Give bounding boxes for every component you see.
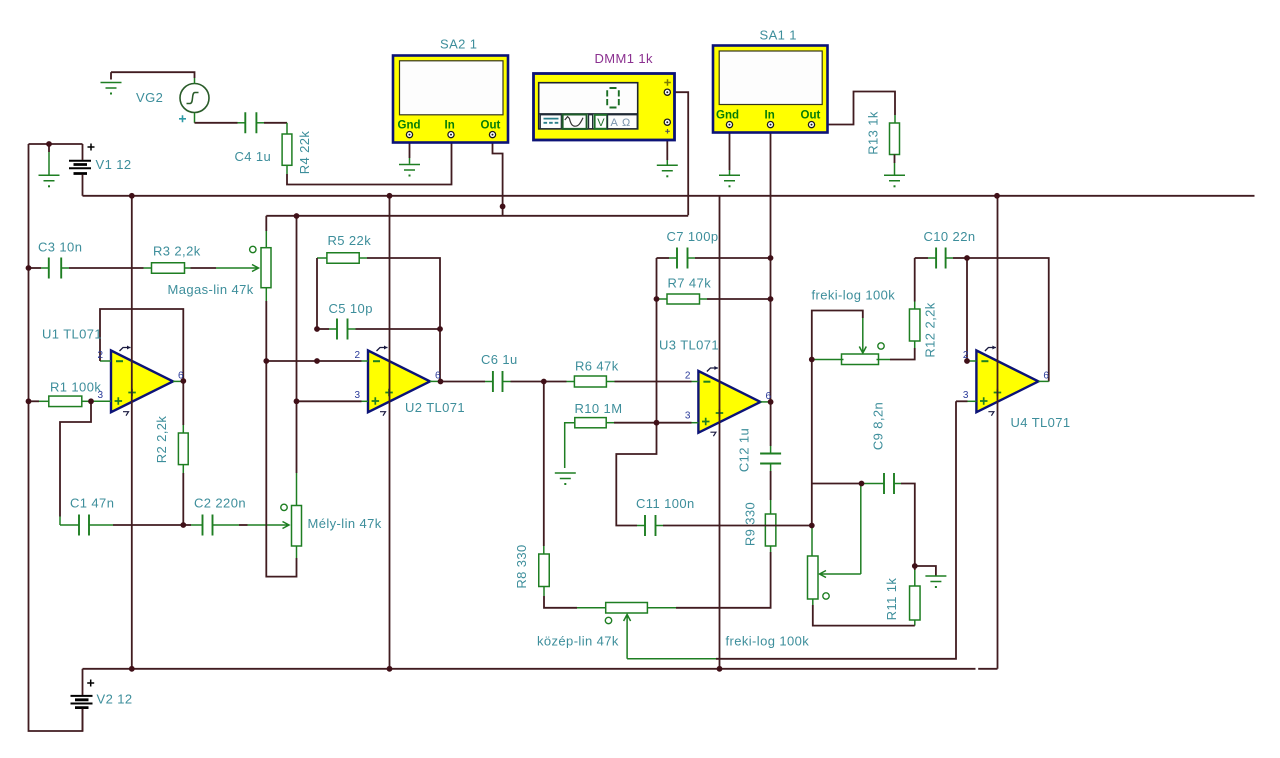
junction rail U3 supply — [717, 666, 723, 672]
wire C5 left lead a — [317, 328, 329, 330]
wire C2 right lead — [213, 524, 240, 526]
wire VG2 top lead — [194, 78, 196, 84]
ground at VG2 — [101, 83, 122, 89]
wire R2 bottom lead — [182, 465, 184, 474]
wire R10 right lead — [606, 422, 614, 424]
junction R7 left — [654, 296, 660, 302]
junction U4 pin2 — [964, 358, 970, 364]
junction bus1 U4 supply — [994, 193, 1000, 199]
capacitor C5 — [337, 319, 348, 340]
wire Magas-lin bottom lead — [265, 288, 267, 302]
voltage generator VG2 — [180, 84, 209, 113]
capacitor C9 — [884, 473, 894, 494]
resistor R13 — [890, 123, 900, 155]
junction C1 C2 R2 node — [180, 522, 186, 528]
wire C9 right lead — [894, 483, 901, 485]
svg-text:Mély-lin 47k: Mély-lin 47k — [308, 516, 382, 531]
capacitor C2 — [203, 515, 213, 536]
svg-text:R7 47k: R7 47k — [668, 276, 712, 291]
svg-text:R2 2,2k: R2 2,2k — [154, 416, 169, 464]
wire C7 right to SA1 In — [695, 257, 771, 259]
wire R1 node to U1 pin3 — [91, 400, 111, 402]
junction U2 pin3 Mely vertical — [294, 398, 300, 404]
SA1 In terminal — [767, 122, 773, 128]
node V1 ground junction — [46, 141, 52, 147]
wire C6 right lead — [503, 381, 511, 383]
svg-text:In: In — [765, 110, 775, 122]
wire C9 ground stem — [915, 566, 936, 576]
svg-text:közép-lin 47k: közép-lin 47k — [537, 634, 619, 649]
wire U4 pin2 stub — [967, 360, 976, 362]
wire R1 left to ground bus — [29, 400, 40, 402]
wire C7 right lead — [688, 257, 696, 259]
wire ground stem at V1 — [48, 144, 50, 152]
svg-text:2: 2 — [355, 350, 361, 361]
wire C5 right lead — [348, 328, 356, 330]
resistor R10 — [575, 418, 606, 428]
junction C7 right SA1 In — [768, 255, 774, 261]
resistor R12 — [909, 309, 920, 341]
svg-text:V1 12: V1 12 — [96, 157, 132, 172]
wire C7 left lead — [669, 257, 677, 259]
wire R8 top vertical — [543, 382, 545, 547]
wire top supply bus (node -V) — [83, 195, 1255, 197]
wire R5 left lead — [317, 257, 327, 259]
wire freki2 top lead — [811, 526, 813, 557]
wire freki1 node vertical — [811, 360, 813, 526]
wire kozep left lead — [577, 607, 606, 609]
wire R4 bottom lead — [286, 165, 288, 174]
svg-text:R5 22k: R5 22k — [328, 233, 372, 248]
wire SA1 In down to U3 output — [770, 129, 772, 402]
DMM1 plus mark — [664, 79, 671, 86]
wire C11 right lead — [656, 525, 664, 527]
svg-text:SA1 1: SA1 1 — [760, 28, 797, 43]
wire freki2 wiper vertical — [860, 484, 862, 575]
wire freki1 wiper loop — [812, 311, 863, 360]
wire pin3 node to U3 — [657, 422, 692, 424]
svg-text:freki-log 100k: freki-log 100k — [812, 288, 896, 303]
wire Mely bottom loop — [266, 361, 296, 577]
potentiometer freki-log 2 wiper terminal — [823, 593, 829, 599]
junction rail U2 supply — [387, 666, 393, 672]
wire U3 output lead — [761, 401, 771, 403]
op-amp U1 TL071 — [111, 346, 173, 416]
resistor R8 — [539, 554, 550, 587]
DMM1 A label — [607, 115, 637, 129]
wire V2 top lead — [82, 669, 84, 695]
wire C9 left lead — [862, 483, 885, 485]
wire Magas-lin top lead — [265, 231, 267, 248]
wire Mely bottom lead — [296, 546, 298, 558]
wire ground stem green at V1 — [48, 152, 50, 175]
svg-text:V: V — [597, 117, 605, 129]
op-amp U2 TL071 — [368, 346, 430, 416]
wire C3 left lead — [41, 267, 49, 269]
wire U4 pin3 a — [956, 400, 968, 402]
svg-text:2: 2 — [963, 350, 969, 361]
DMM1 minus mark — [665, 129, 670, 134]
wire R13 top lead — [894, 115, 896, 123]
SA1 Gnd terminal — [726, 122, 732, 128]
svg-text:C11 100n: C11 100n — [636, 496, 695, 511]
wire kozep right lead — [647, 607, 676, 609]
potentiometer Magas-lin wiper terminal — [250, 246, 256, 252]
wire freki1 wiper arrow — [859, 318, 866, 353]
instrument SA2 body — [393, 56, 508, 143]
junction C6 R6 R8 node — [541, 379, 547, 385]
junction U3 output node — [768, 399, 774, 405]
wire R6 left lead — [567, 381, 575, 383]
svg-text:Ω: Ω — [622, 117, 630, 129]
wire V1 top lead — [82, 144, 84, 160]
DMM1 V button — [595, 115, 608, 129]
resistor R1 — [49, 396, 82, 407]
wire R4 to SA2 In — [287, 138, 452, 185]
capacitor C4 — [245, 112, 256, 133]
wire Magas-lin bottom down — [265, 301, 267, 361]
svg-text:C2 220n: C2 220n — [194, 496, 246, 511]
wire C4 to R4 — [264, 122, 287, 124]
wire R6 to U3 pin2 — [615, 381, 692, 383]
wire R8 to kozep pot — [544, 596, 577, 608]
wire C7R7 left vertical — [656, 258, 658, 423]
svg-text:Gnd: Gnd — [398, 119, 421, 131]
potentiometer kozep-lin — [606, 603, 648, 614]
wire freki1 to R12 — [890, 348, 915, 360]
op-amp U4 TL071 — [976, 346, 1038, 416]
svg-text:R13 1k: R13 1k — [866, 111, 881, 155]
svg-text:6: 6 — [766, 391, 772, 402]
wire C1 to R2 node — [113, 524, 183, 526]
junction R7 right SA1 In — [768, 296, 774, 302]
wire C10 node to U4 output — [967, 258, 1049, 382]
wire bottom supply rail (node +V) — [83, 668, 976, 670]
capacitor C11 — [645, 515, 656, 536]
junction R1 left ground bus — [26, 398, 32, 404]
wire C6 to node — [511, 381, 544, 383]
svg-text:freki-log 100k: freki-log 100k — [726, 634, 810, 649]
wire C9 right down — [901, 484, 915, 567]
SA2 Out terminal — [489, 132, 495, 138]
wire SA2 Gnd stem — [409, 138, 411, 158]
wire R11 bottom lead — [914, 620, 916, 626]
DMM1 mode separator — [589, 115, 593, 129]
wire C1 left lead h — [60, 524, 79, 526]
svg-text:2: 2 — [685, 370, 691, 381]
wire kozep to R9 — [676, 552, 771, 608]
wire C3 right lead — [61, 267, 69, 269]
junction bus1 U2 supply — [387, 193, 393, 199]
svg-text:Out: Out — [801, 110, 821, 122]
wire R12 top lead — [914, 302, 916, 310]
V2 plus mark — [87, 680, 94, 687]
ground at R10 — [555, 473, 576, 479]
wire wiper lead long green — [627, 658, 716, 660]
wire node to R6 — [544, 381, 567, 383]
svg-text:R10 1M: R10 1M — [575, 401, 623, 416]
DMM1 plus terminal — [664, 89, 670, 95]
wire C12 to U3 output — [770, 402, 772, 446]
wire DMM minus stem green — [666, 160, 668, 165]
wire R2 node to C2 — [183, 524, 191, 526]
SA2 Gnd terminal — [406, 132, 412, 138]
wire VG2 output lead — [194, 113, 196, 123]
capacitor C10 — [936, 248, 946, 269]
wire R2 top lead — [182, 425, 184, 433]
ground at DMM1 — [657, 165, 678, 171]
junction C11 right node — [809, 523, 815, 529]
op-amp U3 TL071 — [698, 366, 760, 436]
wire R13 bottom lead — [894, 155, 896, 164]
SA2 In terminal — [448, 132, 454, 138]
svg-text:U3 TL071: U3 TL071 — [659, 338, 719, 353]
svg-text:6: 6 — [435, 370, 441, 381]
ground at V1 — [39, 175, 60, 181]
potentiometer Magas-lin — [261, 248, 271, 288]
wire U1 output lead — [173, 380, 183, 382]
wire C10 right to U4 pin2 node — [953, 257, 967, 259]
wire C3 to R3 — [69, 267, 144, 269]
wire R5 right to feedback — [367, 258, 440, 329]
wire R12 to C10 — [914, 258, 916, 302]
V1 plus mark — [88, 144, 95, 151]
instrument SA1 body — [713, 46, 828, 133]
wire Mely top down — [296, 401, 298, 473]
wire C3 left to ground bus — [29, 267, 42, 269]
junction SA2 out joint — [500, 204, 506, 210]
wire U2 pin2 stub — [362, 360, 369, 362]
potentiometer kozep-lin wiper terminal — [605, 617, 611, 623]
svg-text:3: 3 — [963, 390, 969, 401]
wire R1 left lead — [39, 400, 49, 402]
potentiometer freki-log 2 — [808, 556, 819, 599]
svg-text:Out: Out — [481, 119, 501, 131]
DMM1 minus terminal — [664, 119, 670, 125]
junction U3 pin3 node — [654, 420, 660, 426]
svg-text:U1 TL071: U1 TL071 — [42, 327, 102, 342]
wire R11 top lead a — [914, 566, 916, 570]
wire U2 pin2 line — [266, 360, 361, 362]
junction bus B Mely vertical — [294, 213, 300, 219]
ground at SA1 — [719, 175, 740, 181]
capacitor C1 — [79, 515, 89, 536]
DMM1 DC icon — [540, 115, 561, 129]
wire U4 pin3 stub — [968, 400, 977, 402]
wire Magas-lin top to bus B — [265, 216, 267, 231]
wire R7 right to SA1 In — [707, 298, 771, 300]
wire feedback to U2 output — [439, 329, 441, 382]
wire U1 pin2 stub — [100, 360, 111, 362]
instrument DMM1 body — [534, 74, 675, 141]
resistor R11 — [910, 586, 921, 620]
junction C10 right U4 pin2 — [964, 255, 970, 261]
wire Mely top lead — [296, 473, 298, 506]
wire U1 pin3 node down to C1 — [60, 401, 91, 516]
ground at SA2 — [399, 165, 420, 171]
wire R6 right lead — [607, 381, 615, 383]
resistor R7 — [667, 294, 700, 304]
svg-text:R6 47k: R6 47k — [575, 359, 619, 374]
VG2 plus mark — [179, 115, 186, 122]
svg-text:R11 1k: R11 1k — [884, 578, 899, 621]
wire C4 right lead — [256, 122, 264, 124]
wire U2 output lead — [430, 380, 441, 382]
wire Mely vertical to bus B — [296, 216, 298, 401]
svg-text:C10 22n: C10 22n — [924, 229, 976, 244]
svg-text:2: 2 — [98, 350, 104, 361]
potentiometer Mely-lin — [292, 506, 302, 547]
svg-text:C1 47n: C1 47n — [70, 496, 114, 511]
svg-text:C6 1u: C6 1u — [481, 352, 518, 367]
wire C12 bottom lead — [770, 464, 772, 472]
svg-text:C7 100p: C7 100p — [667, 229, 719, 244]
svg-text:R3 2,2k: R3 2,2k — [153, 244, 201, 259]
svg-text:3: 3 — [685, 411, 691, 422]
wire freki2 bottom lead — [812, 599, 814, 605]
svg-text:A: A — [611, 117, 619, 129]
wire SA2 Gnd stem green — [409, 158, 411, 164]
junction U2 output C6 — [438, 379, 444, 385]
svg-text:DMM1 1k: DMM1 1k — [595, 51, 654, 66]
wire C5 left lead — [329, 328, 337, 330]
wire R7 left a — [657, 298, 660, 300]
junction U2 pin2 Magas bottom — [263, 358, 269, 364]
wire U1 feedback loop — [100, 309, 183, 382]
svg-text:R9 330: R9 330 — [743, 502, 758, 546]
wire R5 left vertical — [316, 258, 318, 329]
wire R7 right lead — [700, 298, 708, 300]
resistor R3 — [152, 263, 185, 274]
wire V1 bottom lead to bus — [82, 175, 84, 196]
svg-text:C4 1u: C4 1u — [235, 149, 272, 164]
wire kozep wiper arrow — [624, 615, 631, 659]
wire VG2 to C4 — [195, 122, 238, 124]
wire C10 left a — [915, 257, 928, 259]
wire SA1 Out to R13 — [812, 92, 896, 125]
svg-text:C12 1u: C12 1u — [737, 428, 752, 472]
wire U1 supply vertical — [131, 196, 133, 669]
junction freki1 node — [809, 357, 815, 363]
svg-text:R1 100k: R1 100k — [50, 380, 101, 395]
wire C5 right to feedback — [356, 328, 441, 330]
capacitor C12 — [760, 454, 781, 464]
potentiometer Mely-lin wiper terminal — [281, 504, 287, 510]
junction R5 C5 left — [314, 358, 320, 364]
wire DMM plus to bus B — [671, 92, 689, 215]
wire SA1 Gnd stem — [729, 129, 731, 171]
svg-text:V2 12: V2 12 — [97, 692, 133, 707]
wire R4 top lead — [286, 123, 288, 134]
junction C5 right feedback — [437, 326, 443, 332]
svg-text:In: In — [445, 119, 455, 131]
junction C9 left node — [859, 481, 865, 487]
wire C11 left lead — [637, 525, 645, 527]
resistor R2 — [178, 433, 188, 465]
wire R11 top lead — [914, 570, 916, 586]
DMM1 display digit 0 — [607, 88, 619, 108]
svg-text:6: 6 — [178, 370, 184, 381]
svg-text:R8 330: R8 330 — [514, 544, 529, 588]
wire R9 top lead — [770, 500, 772, 514]
wire SA1 Gnd stem green — [729, 170, 731, 175]
wire V1 top to ground node — [29, 143, 83, 145]
svg-text:SA2 1: SA2 1 — [440, 37, 477, 52]
wire R2 top from U1 output — [182, 382, 184, 426]
wire C12 top lead — [770, 446, 772, 454]
wire U4 pin3 long wire — [716, 401, 956, 659]
wire C10 left lead — [928, 257, 936, 259]
ground at R13 — [884, 175, 905, 181]
svg-text:U2 TL071: U2 TL071 — [405, 400, 465, 415]
wire U4 output lead — [1038, 380, 1048, 382]
wire U3 supply vertical — [719, 196, 721, 669]
svg-text:U4 TL071: U4 TL071 — [1011, 415, 1071, 430]
svg-text:R12 2,2k: R12 2,2k — [923, 302, 938, 357]
wire C2 toward Mely — [239, 524, 248, 526]
capacitor C6 — [493, 371, 503, 392]
wire U2 out to C6 — [441, 381, 486, 383]
wire C2 left lead — [191, 524, 203, 526]
wire U2 supply vertical — [389, 196, 391, 669]
resistor R9 — [765, 514, 776, 546]
battery V1 — [69, 161, 91, 174]
wire R13 bottom lead green — [894, 163, 896, 175]
wire R10 to pin3 node — [614, 422, 657, 424]
wire freki1 left lead — [812, 359, 844, 361]
wire VG2 top — [111, 72, 195, 78]
wire R8 top lead — [543, 546, 545, 554]
wire C7 left a — [657, 257, 670, 259]
capacitor C7 — [677, 248, 688, 269]
wire U3 pin3 stub — [692, 422, 699, 424]
wire C11 right to node — [663, 525, 812, 527]
capacitor C3 — [49, 258, 61, 279]
svg-text:Magas-lin 47k: Magas-lin 47k — [168, 282, 254, 297]
wire U4 supply vertical — [997, 196, 999, 669]
wire U2 pin3 line — [297, 400, 362, 402]
wire C6 left lead — [485, 381, 493, 383]
potentiometer freki-log 1 — [842, 354, 879, 365]
junction C3 ground bus — [26, 265, 32, 271]
wire R3 to Magas-lin wiper arrow — [216, 265, 259, 272]
wire R9 to C12 — [770, 471, 772, 500]
resistor R4 — [282, 134, 292, 165]
wire R3 to pot mid — [191, 267, 217, 269]
wire R10 left to ground — [565, 423, 575, 468]
wire bottom rail right segment — [978, 668, 997, 670]
junction R1 right U1 pin3 — [88, 398, 94, 404]
svg-text:R4 22k: R4 22k — [297, 131, 312, 175]
svg-text:3: 3 — [355, 390, 361, 401]
wire VG2 ground stem — [110, 72, 112, 79]
resistor R5 — [327, 253, 359, 264]
wire R12 bottom lead — [914, 341, 916, 348]
wire C4 left lead — [238, 122, 246, 124]
wire V2 bottom lead — [82, 709, 84, 731]
svg-text:Gnd: Gnd — [716, 110, 739, 122]
wire C1 left lead — [59, 517, 61, 526]
wire R3 right lead — [185, 267, 191, 269]
svg-text:C5 10p: C5 10p — [329, 301, 373, 316]
wire second bus (node B) — [266, 215, 688, 217]
wire R2 bottom to node — [182, 473, 184, 525]
wire R3 left lead — [144, 267, 152, 269]
svg-text:VG2: VG2 — [136, 90, 163, 105]
wire R11 to freki2 bottom — [813, 605, 915, 626]
resistor R6 — [574, 376, 606, 387]
svg-text:C9 8,2n: C9 8,2n — [871, 402, 886, 450]
